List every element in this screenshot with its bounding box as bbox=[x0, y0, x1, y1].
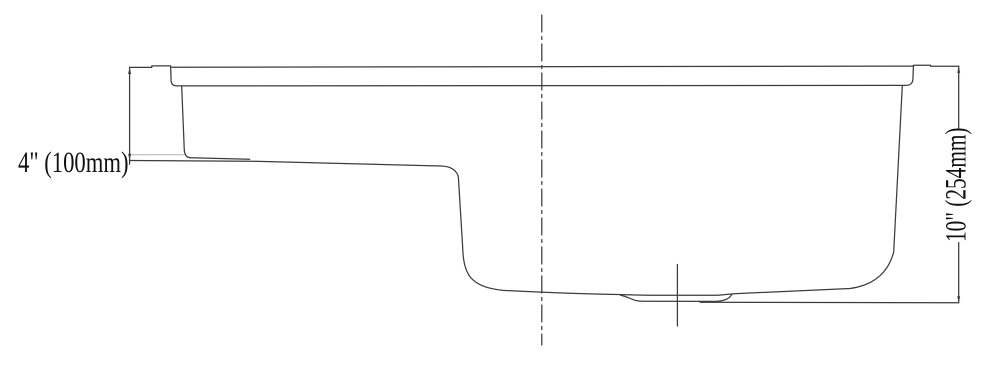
drain recess in bowl bottom bbox=[621, 295, 732, 302]
arrowhead up, left dimension top bbox=[128, 67, 131, 74]
svg-text:4" (100mm): 4" (100mm) bbox=[18, 145, 129, 179]
left dimension line 4in bbox=[129, 67, 131, 164]
bottom dimension extension line bbox=[700, 301, 959, 304]
faint drainboard level line bbox=[130, 154, 184, 156]
arrowhead down, left dimension bottom bbox=[128, 154, 131, 161]
drain centerline mark bbox=[676, 265, 678, 327]
sink rim outline: left extension, left lip, outer drops, inner ledge, right lip, right extension bbox=[130, 65, 959, 86]
svg-text:10" (254mm): 10" (254mm) bbox=[939, 127, 972, 242]
sink vertical centerline (dash-dot) bbox=[541, 15, 543, 345]
right dimension line 10in upper segment bbox=[958, 66, 960, 128]
right dimension line 10in lower segment bbox=[958, 243, 960, 303]
sink deck top edge bbox=[172, 66, 914, 67]
arrowhead up, right dimension top bbox=[957, 66, 960, 73]
left inner wall of drainboard bbox=[182, 86, 250, 159]
arrowhead down, right dimension bottom bbox=[957, 296, 960, 303]
drainboard surface sloping to bowl, bowl left wall, bowl bottom, right wall bbox=[130, 86, 903, 295]
